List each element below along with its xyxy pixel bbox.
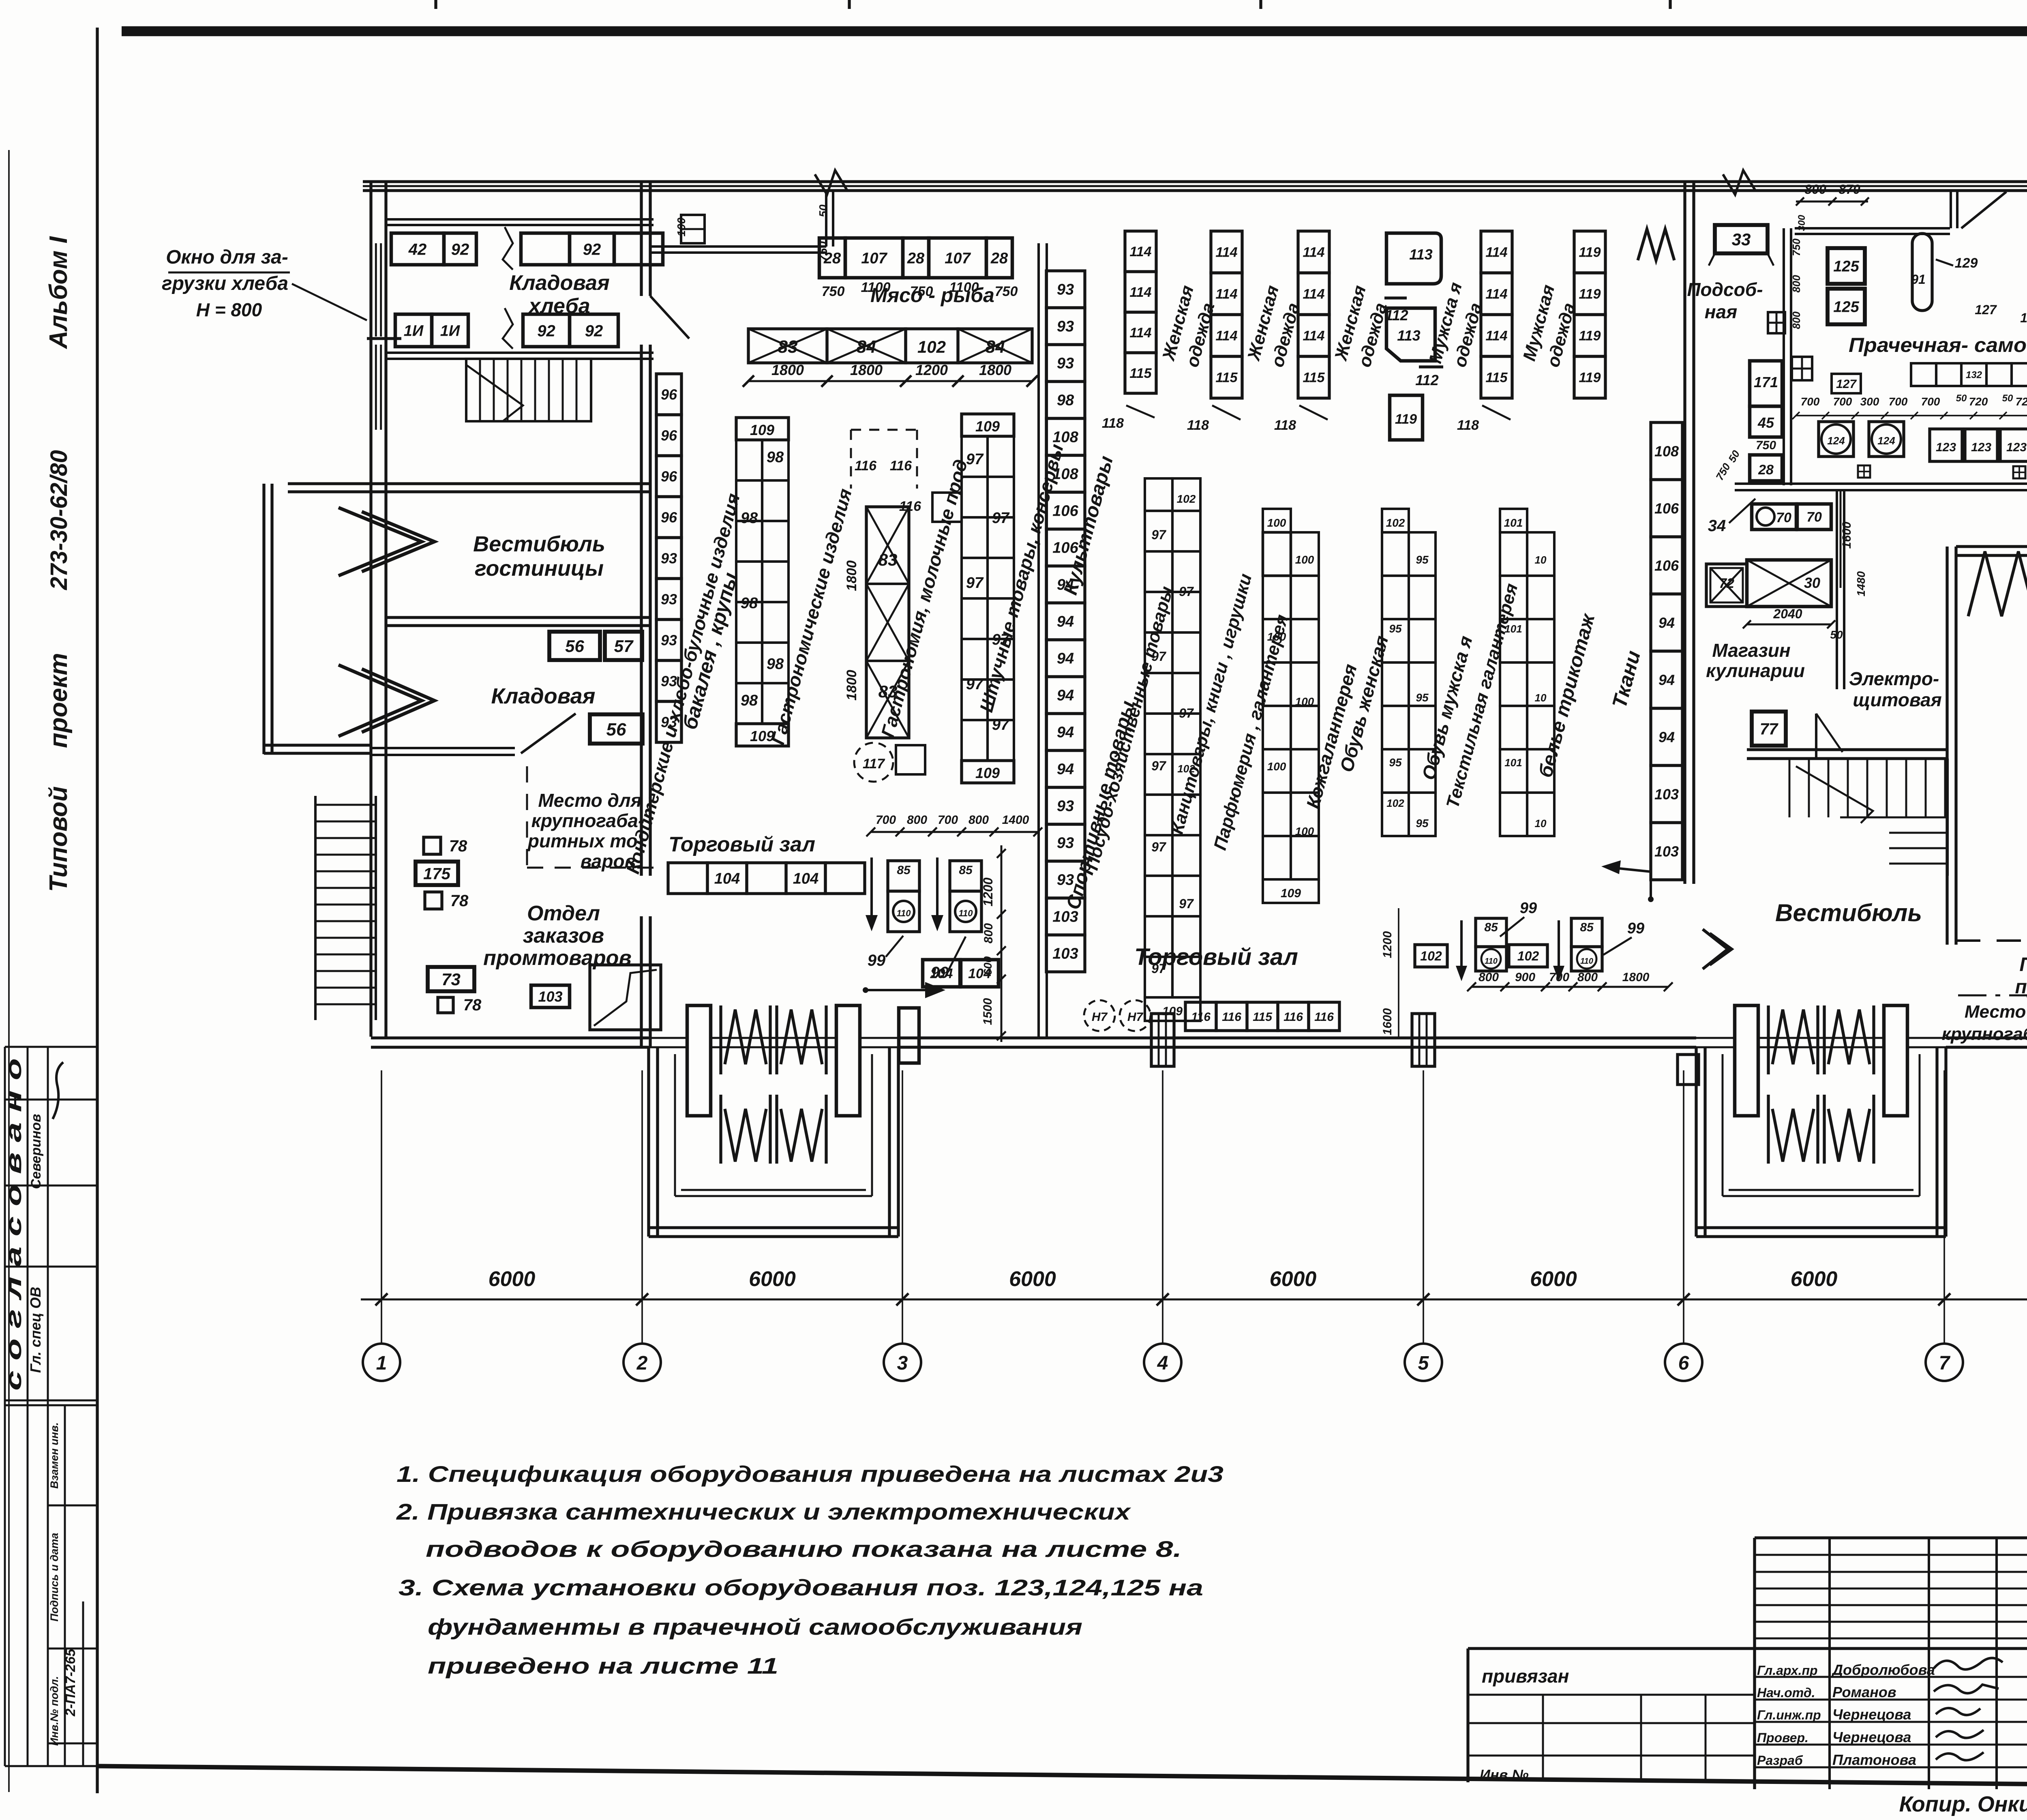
pier bottom wall grid 5 [1412,1014,1435,1066]
svg-text:99: 99 [1520,900,1537,917]
svg-text:114: 114 [1485,245,1507,260]
washing machine 124 no2 [1869,422,1904,457]
rot label Мужская одежда 1 [1425,280,1486,369]
svg-text:94: 94 [1057,613,1074,630]
island counter with X 83 [844,507,909,738]
gondola shelf 109/97 double column [962,414,1014,783]
laundry entrance door leaf [1961,192,2006,228]
svg-text:Торговый зал: Торговый зал [669,833,815,856]
checkout row 104 104 [668,863,865,894]
clothes rack strip 5 (119) [1574,231,1605,398]
small dims rotated left of meat area [675,204,830,262]
svg-text:300: 300 [1796,214,1807,231]
pointer 118 strip4 [1457,405,1511,433]
electrical room door [1816,714,1843,758]
svg-text:300: 300 [1860,395,1879,408]
svg-text:56: 56 [606,720,626,740]
svg-text:114: 114 [1303,287,1324,302]
svg-text:127: 127 [1975,302,1997,317]
svg-text:123: 123 [2006,441,2027,454]
zigzag break in shelf row [503,227,513,270]
svg-text:94: 94 [1057,650,1074,667]
svg-text:Чернецова: Чернецова [1832,1706,1911,1723]
grid circle 6 [1665,1344,1702,1381]
svg-text:1800: 1800 [850,362,883,378]
equipment 73 box [428,967,474,991]
label Кладовая [491,684,596,708]
svg-text:750: 750 [1790,238,1802,256]
laundry tall oval 91 no1 [1911,234,1932,311]
svg-text:116: 116 [1222,1010,1241,1024]
laundry equip 125 boxes [1828,248,1865,324]
grid line 7 [1943,1070,1945,1344]
svg-text:104: 104 [714,870,740,887]
svg-text:1600: 1600 [1840,521,1853,549]
washing machine 124 no1 [1819,422,1853,457]
svg-text:123: 123 [1971,441,1991,454]
internal wall grid6 (sales hall / right block) [1685,182,1694,884]
svg-text:700: 700 [1549,971,1569,984]
svg-text:78: 78 [463,996,482,1014]
кулинария counter 72 30 [1706,560,1843,641]
svg-text:1: 1 [376,1353,387,1374]
svg-text:93: 93 [1057,355,1074,372]
svg-text:83: 83 [778,337,798,357]
svg-text:800: 800 [982,923,995,943]
rot label Культтовары [1060,454,1117,597]
svg-text:116: 116 [1314,1010,1334,1024]
svg-text:800: 800 [1790,311,1802,329]
svg-text:110: 110 [1485,957,1498,966]
svg-text:116: 116 [855,458,877,474]
svg-text:Торговый зал: Торговый зал [1134,944,1298,970]
svg-text:Н = 800: Н = 800 [196,299,262,320]
svg-text:91: 91 [1911,272,1926,287]
svg-text:106: 106 [1654,557,1679,574]
dashed circle 117 equipment [854,743,925,782]
svg-text:99: 99 [1627,920,1644,937]
svg-text:97: 97 [1151,840,1167,854]
wall shelf strip 96/93 along wall A [656,374,681,742]
approval table rotated texts [2,1058,78,1746]
svg-text:124: 124 [1827,435,1845,447]
svg-text:109: 109 [975,418,1000,435]
building left wall with bread-loading window [367,182,401,1037]
corner counter with diagonal [590,965,661,1030]
svg-text:50: 50 [1956,393,1967,404]
door chevron vestibule west [1703,929,1732,969]
svg-text:Гл.арх.пр: Гл.арх.пр [1757,1663,1818,1678]
svg-text:700: 700 [1833,395,1852,408]
laundry vertical dim chain left [1790,214,1807,329]
svg-text:102: 102 [1517,949,1539,963]
svg-text:Подсоб-: Подсоб- [1687,279,1763,300]
dashed zone Место для крупногабаритных товаров [527,766,661,872]
svg-text:1200: 1200 [981,877,995,906]
entrance porch right pylons [1735,1005,1907,1116]
svg-text:Окно для за-: Окно для за- [166,247,288,268]
svg-text:7: 7 [1939,1353,1951,1374]
equipment 78 square [424,837,467,855]
svg-text:116: 116 [1283,1010,1303,1024]
grid circle 4 [1144,1344,1181,1381]
laundry dim row 800 870 [1796,182,1869,206]
labels 129 127 pointers [1936,253,2027,325]
svg-text:108: 108 [1654,443,1679,459]
svg-text:100: 100 [1295,553,1314,566]
svg-text:119: 119 [1579,328,1601,344]
svg-text:Взамен инв.: Взамен инв. [48,1422,60,1489]
svg-text:114: 114 [1303,245,1324,260]
svg-text:97: 97 [1179,706,1194,720]
svg-text:98: 98 [767,656,784,673]
clothes rack strip 0 (114/115) [1125,231,1156,393]
wall: bread storeroom bottom [386,353,654,359]
svg-text:118: 118 [1274,418,1296,433]
small hatch below 124 [1858,465,1870,478]
building top wall [363,182,2027,191]
approval table left margin [5,1047,97,1766]
svg-text:Альбом I: Альбом I [45,236,73,349]
svg-text:проект: проект [45,653,73,748]
grid line 3 [902,1070,903,1344]
equipment 103 box [531,985,570,1008]
svg-text:100: 100 [1295,695,1314,708]
svg-text:92: 92 [451,240,469,258]
pointer 34 [1708,499,1755,535]
svg-text:6000: 6000 [749,1267,796,1291]
svg-text:97: 97 [1151,759,1167,773]
svg-text:118: 118 [1102,416,1124,431]
callout Окно для загрузки хлеба [162,247,367,320]
partition wall between halls [1039,243,1047,1038]
wall кулинария/щитовая [1837,490,1844,689]
svg-text:Отдел: Отдел [527,902,600,925]
label Отдел заказов промтоваров [483,902,632,970]
equipment 56 box [590,714,643,744]
small room wall top-left of hall [650,191,833,253]
svg-text:95: 95 [1416,553,1429,566]
entrance porch left pylons [687,1005,860,1116]
laundry wall bottom [1735,484,2027,490]
svg-text:щитовая: щитовая [1853,689,1941,710]
rot label Кожгалантерея [1302,662,1361,811]
svg-text:800: 800 [969,813,989,827]
clothes rack strip 1 (114/115) [1211,231,1242,398]
svg-text:109: 109 [750,422,774,438]
svg-text:Магазин: Магазин [1712,640,1790,661]
svg-text:1800: 1800 [844,670,859,701]
svg-text:110: 110 [1580,957,1593,966]
hooked exit arrow [1601,860,1654,902]
svg-text:ная: ная [1705,301,1737,322]
svg-text:6: 6 [1678,1353,1689,1374]
rot label Гастрономические изделия [767,486,856,747]
vertical dim chain 1200-800-600-1500 [981,845,1006,1042]
rot label Женская одежда 3 [1331,283,1391,369]
signatures squiggles [1934,1658,2003,1760]
svg-text:1800: 1800 [844,560,859,591]
label Пункт проката [2015,954,2027,998]
laundry dim row tiny [1792,393,2027,419]
rot label Гастрономия молочные прод [877,457,971,740]
svg-text:127: 127 [2020,311,2027,325]
bottom shelf row Н7 Н7 116 116 115 116 116 [1084,1000,1339,1031]
svg-text:96: 96 [661,468,677,484]
svg-text:870: 870 [1838,182,1860,197]
box 77 [1752,712,1786,746]
svg-text:99: 99 [868,952,886,969]
rack Канцтовары double column [1263,509,1319,903]
svg-text:Электро-: Электро- [1849,668,1939,689]
svg-text:привязан: привязан [1482,1666,1569,1687]
svg-text:4: 4 [1157,1353,1168,1374]
svg-text:70: 70 [1806,510,1822,525]
svg-text:104: 104 [930,966,953,982]
svg-text:подводов к оборудованию показа: подводов к оборудованию показана на лист… [426,1536,1182,1562]
svg-text:114: 114 [1485,287,1507,302]
svg-text:Типовой: Типовой [45,786,73,892]
svg-text:110: 110 [958,908,973,918]
svg-text:28: 28 [907,250,925,267]
grid line 2 [641,1070,643,1344]
svg-text:Добролюбова: Добролюбова [1831,1661,1935,1678]
svg-text:83: 83 [879,550,898,569]
top wall door zigzag near grid 6 [1638,229,1674,260]
svg-text:10: 10 [1535,554,1547,566]
fitting shapes 113 112 [1384,233,1443,388]
svg-text:33: 33 [1732,230,1751,249]
room Магазин кулинарии: boxes 70 70 [1752,504,1831,529]
svg-text:112: 112 [1415,372,1438,388]
equipment 56 57 boxes [549,632,642,660]
vent chamber walls [1947,547,2027,945]
svg-text:123: 123 [1936,441,1956,454]
svg-text:42: 42 [408,240,427,258]
cash machines right pair [1381,900,1673,1038]
svg-text:125: 125 [1833,299,1859,316]
wall between hotel vestibule and storeroom [386,617,650,626]
svg-text:93: 93 [661,591,677,607]
box 119 below fitting [1390,395,1423,440]
svg-text:97: 97 [992,510,1010,527]
grid circle 3 [884,1344,921,1381]
svg-text:119: 119 [1579,370,1601,386]
paper fold line left [8,150,10,1792]
svg-text:100: 100 [1267,517,1286,529]
pier bottom wall grid 4 [1151,1014,1174,1066]
bottom annotation line [1899,1792,2027,1816]
svg-text:93: 93 [1057,798,1074,815]
dash-dot line bulk items area [1958,995,2027,997]
svg-text:1И: 1И [404,323,424,340]
label Прачечная-самообслуживания [1849,334,2027,356]
svg-text:Провер.: Провер. [1757,1730,1808,1745]
svg-text:Место для установки: Место для установки [1965,1002,2027,1022]
svg-text:30: 30 [1804,575,1820,591]
svg-text:108: 108 [1052,466,1078,483]
svg-text:50: 50 [817,204,829,217]
equipment 78 square 2 [425,892,469,910]
entrance porch right outer walls [1696,1048,1946,1237]
svg-text:114: 114 [1215,287,1237,302]
svg-text:крупногаба-: крупногаба- [531,810,645,831]
svg-text:103: 103 [1654,843,1679,860]
svg-text:92: 92 [583,240,601,258]
wall pier at entrance right block [1678,1055,1699,1085]
svg-text:85: 85 [1580,921,1594,934]
cash machines with arrows 99 [866,813,1042,982]
svg-text:102: 102 [1386,797,1404,809]
svg-text:Нач.отд.: Нач.отд. [1757,1685,1815,1700]
strip 171-45-28 [1750,361,1782,481]
rot label Парфюмерия галантерея [1210,612,1292,852]
bottom dimension line [361,1293,2027,1306]
svg-text:Чернецова: Чернецова [1832,1729,1911,1745]
sheet frame top border [122,26,2027,36]
svg-text:600: 600 [981,956,994,975]
grid circle 7 [1926,1344,1963,1381]
svg-text:84: 84 [857,337,876,357]
svg-text:124: 124 [1877,435,1895,447]
sheet frame bottom border [96,1766,2027,1789]
entrance porch left door zigzags [721,1005,826,1164]
pointer 118 strip2 [1274,405,1328,433]
rot label Ткани [1608,648,1645,710]
internal wall between left block and sales hall [641,182,650,1047]
label Торговый зал left [669,833,815,856]
svg-text:Вестибюль: Вестибюль [473,532,605,556]
svg-text:85: 85 [897,864,911,877]
svg-text:1200: 1200 [1381,931,1394,958]
svg-text:Подпись и дата: Подпись и дата [48,1533,60,1622]
shelf row 1И-1И and 92-92 [395,314,618,347]
svg-text:85: 85 [959,864,973,877]
svg-text:с о г л а с о в а н о: с о г л а с о в а н о [2,1058,26,1391]
tambour door chevron lower [339,665,435,736]
svg-text:800: 800 [1790,275,1802,293]
svg-text:1400: 1400 [1002,813,1029,827]
svg-text:118: 118 [1457,418,1479,433]
svg-text:Кладовая: Кладовая [491,684,596,708]
svg-text:750: 750 [816,241,830,262]
svg-text:95: 95 [1416,691,1429,704]
svg-text:1800: 1800 [1622,971,1650,984]
label 127 bracket [1832,374,1861,393]
equipment 104 104 boxes lower [923,960,999,987]
svg-text:2. Привязка сантехнических и э: 2. Привязка сантехнических и электротехн… [396,1499,1132,1524]
svg-text:93: 93 [1057,281,1074,298]
svg-text:95: 95 [1416,817,1429,830]
svg-text:96: 96 [661,509,677,525]
counter row 28-107-28-107-28 meat-fish [819,238,1018,299]
rack Текстильная галантерея double column [1500,509,1554,836]
svg-text:84: 84 [986,337,1005,357]
svg-text:102: 102 [1386,517,1405,529]
svg-text:гостиницы: гостиницы [475,556,604,581]
svg-text:94: 94 [1057,761,1074,778]
svg-text:кулинарии: кулинарии [1706,660,1805,681]
svg-text:28: 28 [990,250,1008,267]
svg-text:95: 95 [1389,756,1402,769]
svg-text:97: 97 [992,716,1010,733]
rot label Канцтовары книги игрушки [1167,572,1256,836]
svg-text:78: 78 [449,837,467,855]
wall between Подсобная and laundry [1784,228,1791,485]
svg-text:800: 800 [1478,971,1499,984]
svg-text:115: 115 [1303,370,1325,386]
svg-text:57: 57 [614,637,634,656]
svg-text:107: 107 [945,250,971,267]
svg-text:Гл. спец ОВ: Гл. спец ОВ [27,1287,44,1373]
svg-text:Н7: Н7 [1127,1010,1144,1024]
wall shelf strip Ткани [1651,422,1682,880]
break mark top wall left [815,170,847,195]
svg-text:900: 900 [1515,971,1535,984]
svg-text:ритных то-: ритных то- [527,830,644,851]
small box pair top of hall [681,215,705,243]
svg-text:102: 102 [1420,949,1442,963]
vent chamber door break [1968,551,2027,616]
pointer 118 strip1 [1187,405,1241,433]
svg-text:1600: 1600 [1381,1008,1394,1035]
svg-text:118: 118 [1187,418,1209,433]
svg-text:грузки хлеба: грузки хлеба [162,273,288,294]
svg-text:125: 125 [1833,258,1859,275]
long wall shelf strip 93-108-106-94-93-103 [1046,271,1085,972]
svg-text:129: 129 [1955,255,1978,271]
svg-text:119: 119 [1579,245,1601,260]
svg-text:Романов: Романов [1832,1684,1896,1700]
svg-text:750: 750 [822,284,845,299]
rot label Женская одежда 1 [1158,283,1218,369]
svg-text:103: 103 [1052,945,1078,963]
svg-text:6000: 6000 [1009,1267,1056,1291]
svg-text:97: 97 [966,575,984,592]
svg-text:Н7: Н7 [1092,1010,1108,1024]
svg-text:10: 10 [1535,817,1547,830]
washing machines 123 row [1930,429,2027,461]
svg-text:93: 93 [661,550,677,566]
svg-text:127: 127 [1836,377,1857,391]
svg-text:103: 103 [538,988,562,1005]
dim 1600 1480 right of кулинария [1840,491,1867,596]
label Торговый зал big [1134,944,1298,970]
svg-text:73: 73 [441,970,461,989]
svg-text:крупногабаритных предметов: крупногабаритных предметов [1942,1024,2027,1044]
svg-text:114: 114 [1303,328,1324,344]
svg-text:119: 119 [1579,287,1601,302]
svg-text:107: 107 [861,250,887,267]
notes text [396,1461,1223,1679]
svg-text:273-30-62/80: 273-30-62/80 [46,450,72,590]
svg-text:77: 77 [1760,720,1778,738]
rack Посудо-хозяйственные товары numbers 97 [1145,478,1200,1021]
svg-text:10: 10 [1535,692,1547,704]
left margin title: Типовой проект 273-30-62/80 Альбом I (rotated) [45,236,73,892]
svg-text:94: 94 [1057,724,1074,741]
svg-text:6000: 6000 [1791,1267,1838,1291]
svg-text:114: 114 [1215,245,1237,260]
svg-text:Кладовая: Кладовая [509,271,609,295]
laundry bench row 132 142 [1911,363,2027,386]
svg-text:97: 97 [1179,896,1194,911]
svg-text:94: 94 [1057,687,1074,704]
svg-text:94: 94 [1658,614,1675,631]
label Электрощитовая [1849,668,1942,710]
svg-text:98: 98 [1057,392,1074,409]
svg-text:100: 100 [1295,825,1314,838]
